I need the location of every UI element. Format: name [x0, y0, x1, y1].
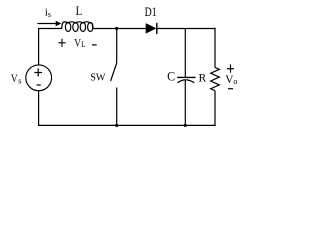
- node junction dot bottom of switch: [115, 124, 118, 127]
- label i_s: [45, 7, 51, 20]
- node junction dot bottom of capacitor: [184, 124, 187, 127]
- svg-text:R: R: [199, 72, 207, 85]
- svg-text:L: L: [81, 40, 86, 50]
- svg-text:V: V: [11, 73, 18, 85]
- svg-text:o: o: [233, 77, 237, 86]
- wire bottom horizontal: [38, 124, 216, 126]
- label - of V_L: [92, 44, 97, 46]
- resistor R: [211, 67, 220, 90]
- + polarity inside source: [34, 68, 42, 76]
- svg-text:V: V: [74, 38, 81, 50]
- svg-text:C: C: [167, 69, 175, 83]
- label Vo: [225, 74, 237, 86]
- svg-text:SW: SW: [90, 72, 105, 83]
- label - of Vo: [228, 88, 233, 90]
- svg-text:D1: D1: [145, 6, 157, 19]
- wire right vertical upper segment: [214, 28, 216, 68]
- wire left vertical upper segment: [38, 28, 40, 65]
- label Vs: [11, 73, 22, 85]
- wire top-left horizontal segment: [39, 28, 62, 30]
- svg-text:s: s: [48, 10, 51, 19]
- current arrow i_s: [37, 21, 61, 26]
- wire right vertical lower segment: [214, 91, 216, 126]
- label + of V_L: [58, 39, 65, 47]
- wire top right segment: [158, 28, 216, 30]
- diode D1: [146, 23, 157, 34]
- wire left vertical lower segment: [38, 91, 40, 126]
- inductor L: [62, 22, 93, 32]
- label V_L: [74, 38, 86, 50]
- capacitor C branch bottom lead: [184, 80, 186, 125]
- capacitor C: [177, 77, 195, 82]
- svg-text:s: s: [18, 76, 21, 85]
- switch SW: [111, 29, 117, 126]
- wire top middle segment: [93, 28, 147, 30]
- label + of Vo: [227, 64, 234, 72]
- node junction dot top of switch: [115, 27, 118, 30]
- - polarity inside source: [37, 84, 41, 86]
- svg-text:L: L: [76, 4, 83, 18]
- capacitor C branch top lead: [184, 29, 186, 78]
- voltage source Vs circle: [26, 65, 52, 91]
